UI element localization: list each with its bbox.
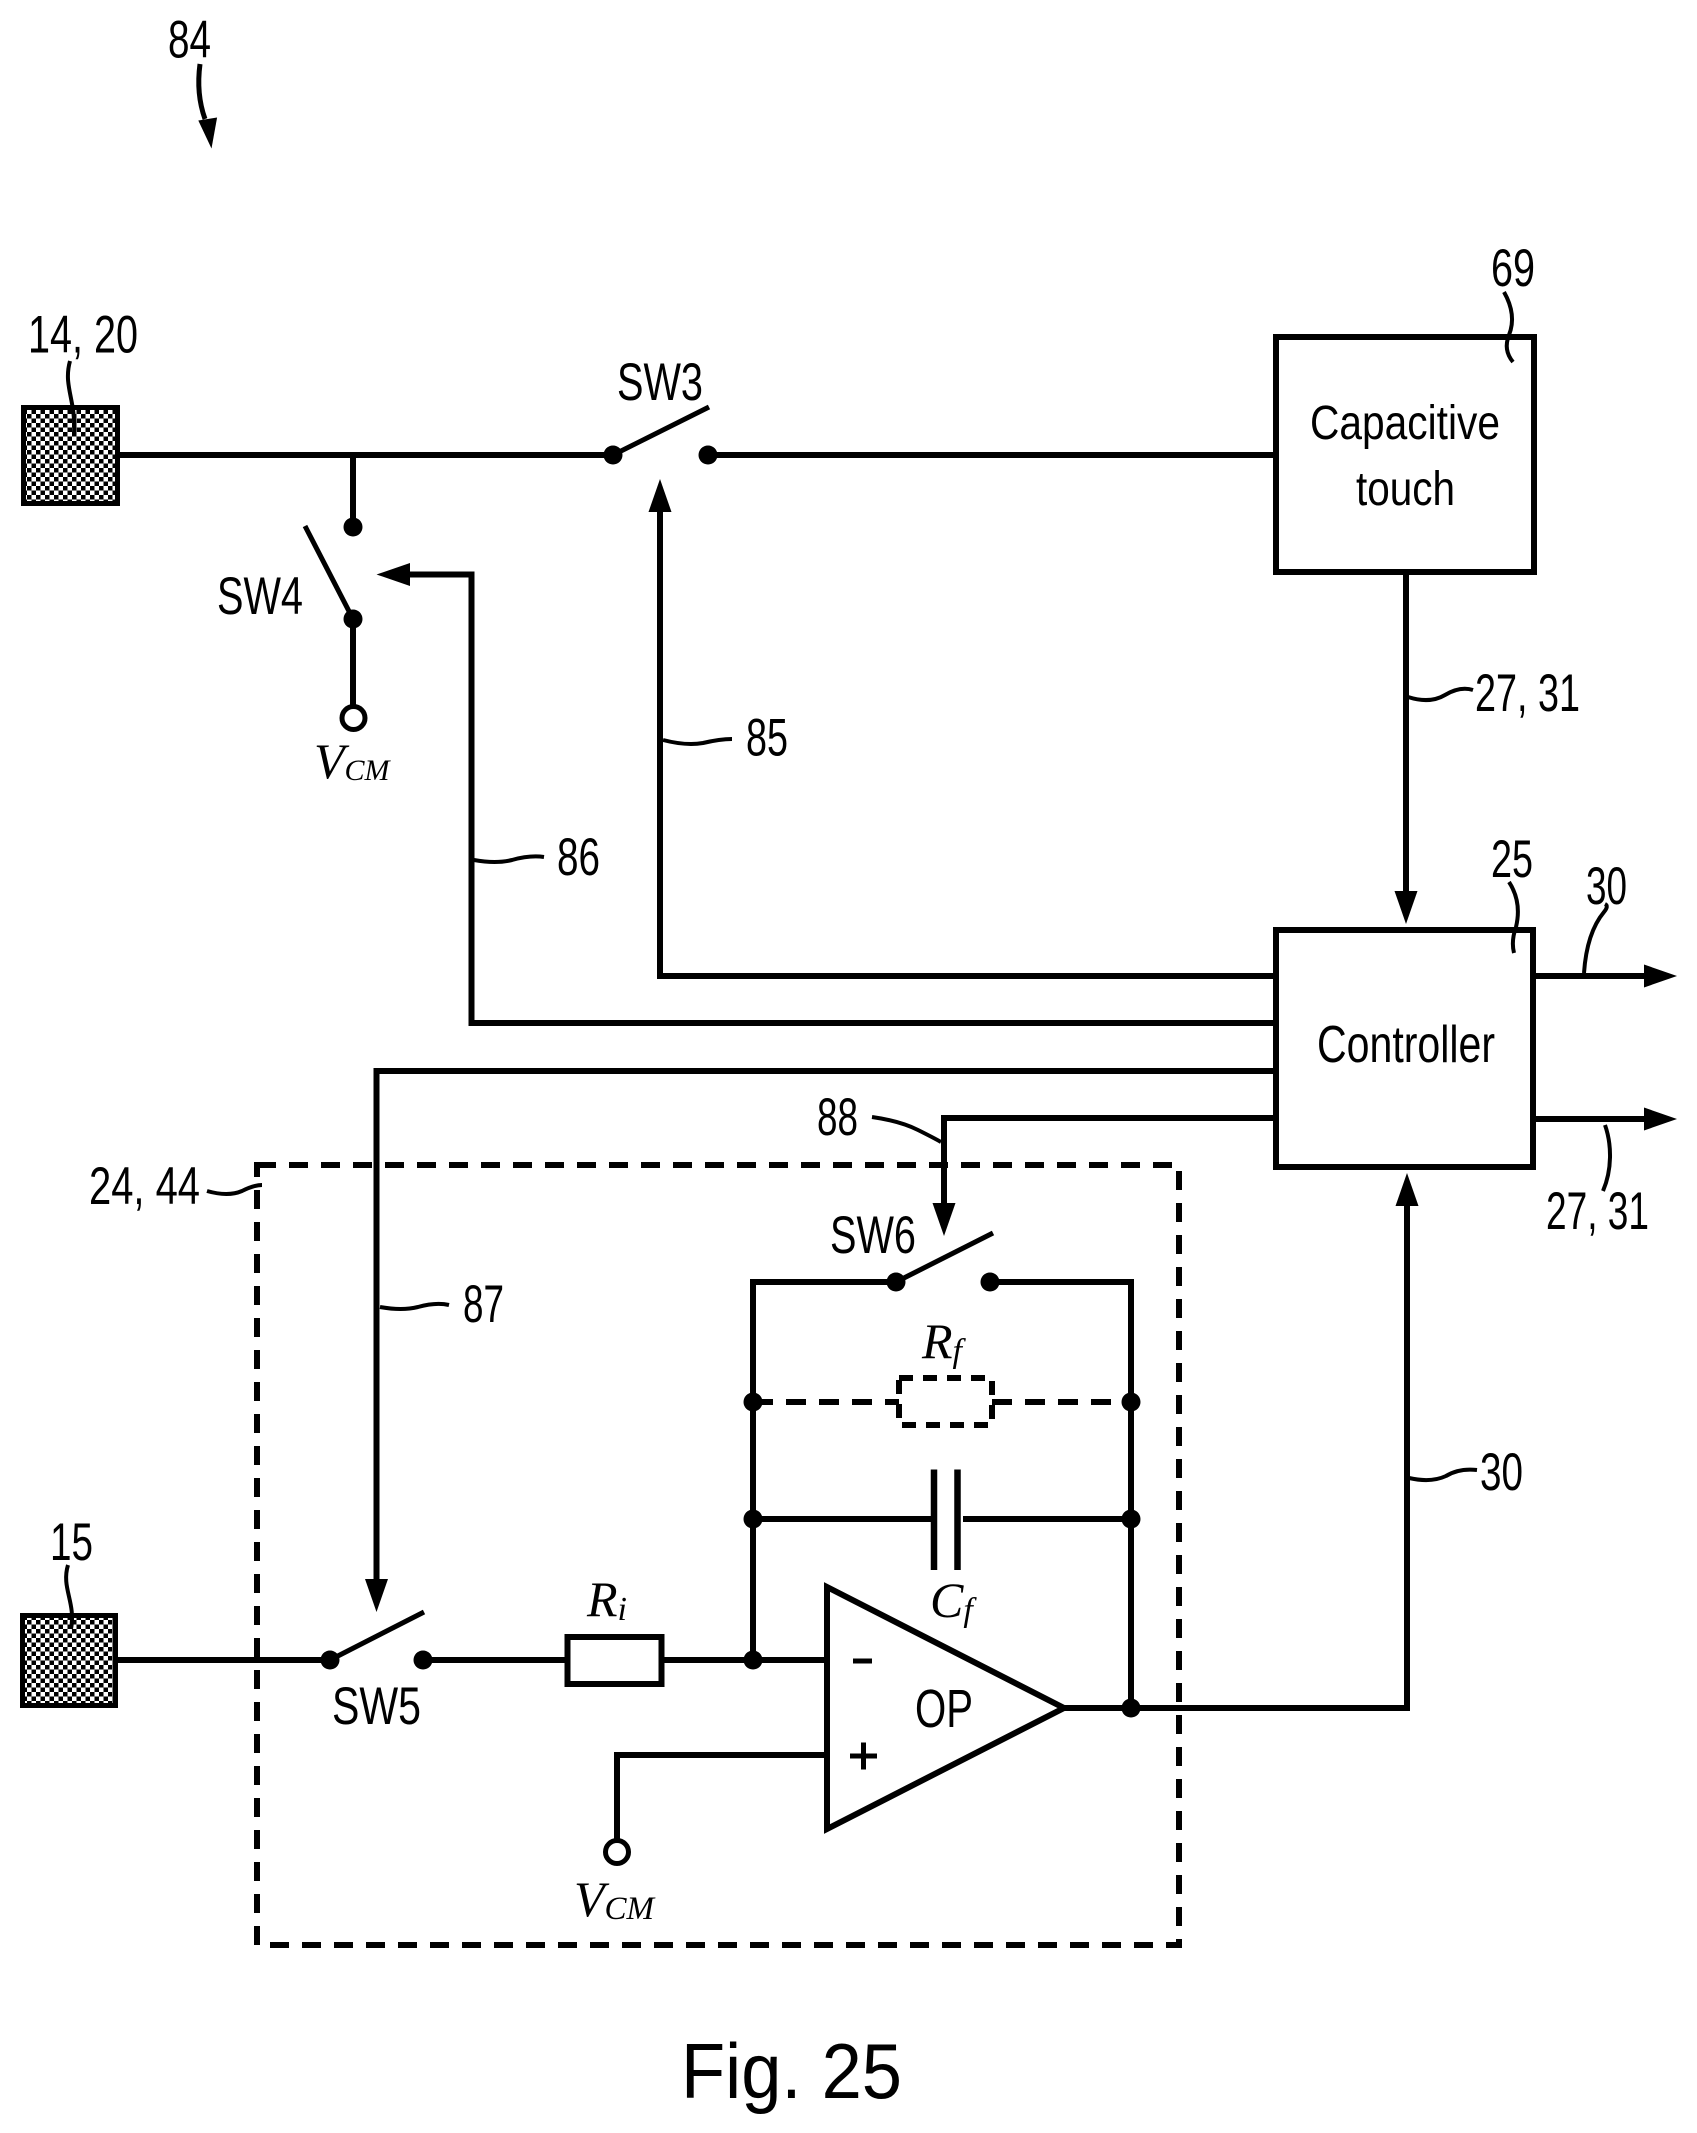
electrode pad 15 (23, 1616, 116, 1706)
svg-text:86: 86 (557, 828, 600, 887)
leader line 69 (1504, 292, 1513, 362)
switch SW6 (830, 1206, 1000, 1292)
leader line 88 (872, 1117, 941, 1142)
wire: dashed Rf right lead (992, 1399, 1131, 1405)
op-amp OP (827, 1587, 1064, 1829)
svg-text:27, 31: 27, 31 (1475, 664, 1580, 723)
leader line 27,31 bottom (1603, 1125, 1610, 1191)
svg-text:SW3: SW3 (617, 353, 703, 412)
wire: op-amp non-inverting input (617, 1755, 827, 1841)
leader line 24,44 (207, 1185, 262, 1194)
leader line 85 (663, 739, 732, 744)
svg-text:SW5: SW5 (332, 1677, 421, 1736)
capacitor Cf (931, 1470, 938, 1571)
electrode pad 14,20 (24, 408, 118, 504)
wire: Cf right lead (963, 1516, 1131, 1522)
switch SW5 (321, 1612, 433, 1736)
leader line 15 (66, 1565, 72, 1629)
output arrow 27,31 (bottom right) (1533, 1116, 1645, 1122)
node: op-amp output junction (1122, 1699, 1141, 1718)
resistor Ri (568, 1637, 662, 1684)
svg-text:OP: OP (915, 1679, 973, 1739)
leader arrow for 84 (199, 64, 205, 119)
wire 88: controller to SW6 (control line) (944, 1118, 1273, 1204)
Vcm terminal (open circle) at op-amp (606, 1841, 629, 1864)
svg-text:25: 25 (1491, 830, 1533, 889)
leader line 86 (474, 856, 544, 862)
wire: SW6 right branch (990, 1282, 1131, 1708)
svg-text:Capacitive: Capacitive (1310, 397, 1500, 450)
wire: Ri to op-amp inverting input (663, 1657, 827, 1663)
leader line 25 (1509, 882, 1518, 953)
svg-text:SW4: SW4 (217, 567, 303, 626)
wire 86: controller to SW4 (control line) (410, 575, 1273, 1024)
wire: Cf left lead (753, 1516, 931, 1522)
svg-text:85: 85 (746, 709, 788, 768)
svg-text:touch: touch (1356, 463, 1455, 516)
node: Cf right junction (1122, 1510, 1141, 1529)
output arrow 30 (top right) (1533, 973, 1645, 979)
node: Cf left junction (744, 1510, 763, 1529)
svg-text:Controller: Controller (1317, 1016, 1495, 1074)
Vcm terminal (open circle) at SW4 (342, 707, 365, 730)
pin - (inverting) (853, 1659, 872, 1664)
wire 87: controller to SW5 (control line) (377, 1071, 1274, 1580)
switch SW3 (604, 353, 718, 465)
switch SW4 (217, 518, 363, 629)
node: inverting input junction (744, 1651, 763, 1670)
wire 85: controller to SW3 (sense line) (660, 512, 1273, 976)
node: Rf left junction (744, 1393, 763, 1412)
wire: SW6 left branch (753, 1282, 896, 1660)
wire: pad 15 to SW5 (116, 1657, 330, 1663)
svg-text:24, 44: 24, 44 (89, 1157, 200, 1216)
wire 27,31: Capacitive touch to Controller (1403, 575, 1409, 895)
Capacitive touch box 69 (1276, 337, 1534, 572)
svg-text:SW6: SW6 (830, 1206, 916, 1265)
svg-text:88: 88 (817, 1088, 858, 1147)
leader line 30 bottom (1409, 1470, 1477, 1480)
leader line 30 top (1584, 904, 1607, 973)
node: Rf right junction (1122, 1393, 1141, 1412)
wire: SW3 to Capacitive touch box (708, 452, 1273, 458)
wire: pad 14,20 to SW3 (118, 452, 613, 458)
leader line 27,31 mid (1408, 689, 1473, 700)
wire: SW4 to Vcm terminal (350, 619, 356, 707)
svg-text:27, 31: 27, 31 (1546, 1182, 1649, 1241)
leader line 87 (380, 1304, 449, 1309)
wire 30: op-amp output to controller (1064, 1206, 1407, 1708)
wire: SW5 to Ri (423, 1657, 566, 1663)
wire: stub from node down to SW4 (350, 455, 356, 523)
resistor Rf (dashed, optional) (899, 1378, 992, 1425)
svg-text:30: 30 (1480, 1443, 1523, 1502)
svg-text:14, 20: 14, 20 (28, 306, 138, 365)
svg-text:87: 87 (463, 1275, 504, 1334)
wire: dashed Rf left lead (753, 1399, 899, 1405)
svg-text:69: 69 (1491, 239, 1535, 298)
pin + (non-inverting) (850, 1754, 877, 1759)
leader line 14,20 (68, 361, 74, 433)
dashed block 24,44 (charge amplifier) (257, 1165, 1179, 1945)
Controller box 25 (1276, 930, 1533, 1167)
svg-text:84: 84 (168, 11, 211, 70)
svg-text:Fig. 25: Fig. 25 (681, 2027, 902, 2115)
svg-text:15: 15 (50, 1513, 93, 1572)
